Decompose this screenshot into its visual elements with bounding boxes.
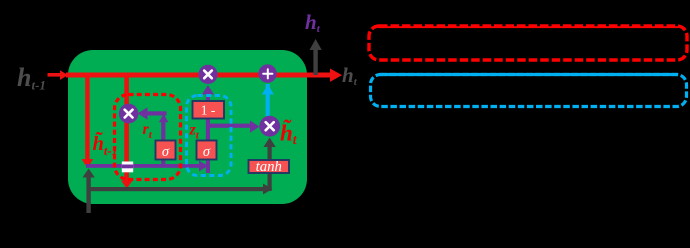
legend: red dashed box	[369, 26, 687, 60]
svg-text:σ: σ	[162, 144, 170, 160]
wire: purple z branch right into candidate multiplier	[208, 124, 250, 128]
wire: purple concat line to sigma gates	[86, 164, 202, 168]
svg-text:ht-1: ht-1	[17, 63, 46, 93]
svg-text:ht: ht	[342, 63, 358, 88]
op: adder circle	[258, 64, 276, 82]
wire: purple riser z: concat arrow up through sigma-z to 1- box	[206, 118, 210, 173]
box: sigma z	[197, 141, 217, 160]
svg-text:tanh: tanh	[256, 159, 282, 175]
wire: purple riser from concat line into sigma-r	[161, 158, 165, 166]
wire: h(t-1) input arrow + main horizontal state line + output arrow to h_t	[48, 73, 62, 77]
wire: red drop from state line into reset multiplier	[124, 75, 129, 107]
update gate dashed box	[187, 96, 232, 176]
box: tanh	[249, 160, 290, 173]
box: 1 minus	[193, 101, 225, 119]
reset gate dashed box	[115, 95, 181, 180]
box: sigma r	[156, 141, 176, 160]
wire: purple from 1- box up into top multiplier	[206, 94, 210, 102]
bridge (no-connection jump)	[122, 162, 133, 173]
op: reset multiplier circle	[119, 104, 139, 124]
svg-text:1 -: 1 -	[201, 103, 216, 118]
wire: dark output arrow up to h_t label	[313, 49, 317, 75]
wire: purple sigma-r output up and left into reset multiplier	[161, 118, 165, 142]
wire: dark riser through tanh into candidate multiplier	[268, 146, 272, 191]
wire: dark xt input from bottom	[86, 177, 90, 213]
svg-text:σ: σ	[203, 144, 211, 160]
wire: red line reset-mult to bridge and arrow into xt line	[124, 120, 129, 162]
op: candidate multiplier circle	[259, 116, 280, 137]
op: top multiplier circle	[198, 65, 217, 84]
wire: dark xt horizontal line to tanh riser	[88, 187, 263, 191]
wire: cyan from candidate multiplier up into adder	[266, 84, 270, 116]
wire: red drop to concat junction	[85, 75, 89, 159]
legend: blue dashed box	[371, 75, 687, 107]
GRU cell body	[68, 50, 307, 204]
svg-text:ht: ht	[305, 10, 321, 35]
